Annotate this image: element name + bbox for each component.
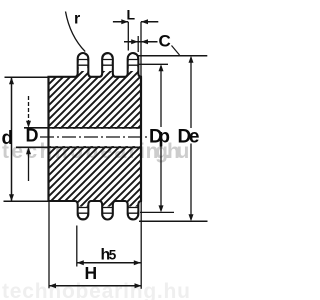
hS dimension line bbox=[77, 262, 141, 264]
H right extension line bbox=[140, 201, 142, 289]
svg-text:Dp: Dp bbox=[149, 127, 170, 148]
svg-text:H: H bbox=[85, 263, 98, 283]
arrowheads bbox=[9, 19, 194, 288]
arrow hS right (right-pointing) bbox=[134, 260, 141, 265]
arrow C right (left-pointing) bbox=[141, 39, 148, 44]
dimension D dashed line upper bbox=[28, 96, 30, 121]
arrow L right (left-pointing) bbox=[141, 19, 148, 24]
C dimension line bbox=[124, 41, 158, 43]
arrow H left (left-pointing) bbox=[49, 283, 56, 288]
dimension D line lower stem bbox=[28, 154, 30, 181]
arrow H right (right-pointing) bbox=[135, 283, 142, 288]
r leader arc bbox=[66, 12, 86, 52]
arrow d top (up) bbox=[9, 77, 14, 84]
C extension line (tooth3 right edge) bbox=[137, 36, 139, 52]
centerline (dash-dot) bbox=[40, 136, 148, 138]
hS left extension line bbox=[76, 226, 78, 267]
L left extension line (tooth3 left edge) bbox=[127, 22, 129, 51]
white interiors of bottom teeth bbox=[79, 207, 137, 219]
arrow Dp top (up) bbox=[159, 64, 164, 71]
Dp dimension line bbox=[160, 66, 162, 211]
svg-text:technobearing.hu: technobearing.hu bbox=[2, 280, 190, 300]
d extension line bottom bbox=[4, 200, 49, 202]
svg-text:De: De bbox=[178, 127, 200, 148]
arrow Dp bottom (down) bbox=[159, 205, 164, 212]
sprocket body section (hatched silhouette with 3 teeth top and bottom) bbox=[49, 53, 142, 220]
bore bottom line bbox=[16, 146, 141, 148]
C leader diagonal bbox=[172, 46, 180, 56]
arrow D top (down) bbox=[26, 121, 31, 128]
tooth internal lines (bottom teeth) bbox=[78, 208, 138, 214]
arrow L left (right-pointing) bbox=[121, 19, 128, 24]
Dp top extension line bbox=[138, 63, 168, 65]
right face extension line up to L bbox=[140, 22, 142, 77]
d extension line top bbox=[5, 76, 49, 78]
arrow De bottom (down) bbox=[189, 214, 194, 221]
Dp bottom extension line bbox=[140, 211, 174, 213]
De bottom extension line bbox=[139, 220, 208, 222]
bore band (white strip through hub) bbox=[48, 129, 142, 146]
De dimension line bbox=[190, 58, 192, 220]
arrow hS left (left-pointing) bbox=[77, 260, 84, 265]
arrow De top (up) bbox=[189, 56, 194, 63]
De top extension line bbox=[138, 55, 207, 57]
tooth internal lines (top teeth) bbox=[78, 60, 138, 66]
svg-text:D: D bbox=[26, 126, 39, 146]
svg-text:5: 5 bbox=[109, 248, 117, 263]
L dimension line bbox=[113, 21, 158, 23]
arrow d bottom (down) bbox=[9, 194, 14, 201]
svg-text:L: L bbox=[127, 7, 136, 23]
H left extension line bbox=[48, 201, 50, 288]
svg-text:d: d bbox=[2, 128, 14, 149]
white interiors of top teeth bbox=[79, 54, 137, 71]
hub left face line bbox=[47, 77, 49, 201]
svg-text:C: C bbox=[159, 32, 171, 51]
arrow C left (right-pointing) bbox=[131, 39, 138, 44]
dimension d line bbox=[11, 77, 13, 201]
body right face line bbox=[140, 77, 142, 201]
bore top line bbox=[24, 127, 141, 129]
svg-text:r: r bbox=[74, 11, 80, 28]
arrow D bottom (up) bbox=[26, 147, 31, 154]
H dimension line bbox=[49, 285, 142, 287]
